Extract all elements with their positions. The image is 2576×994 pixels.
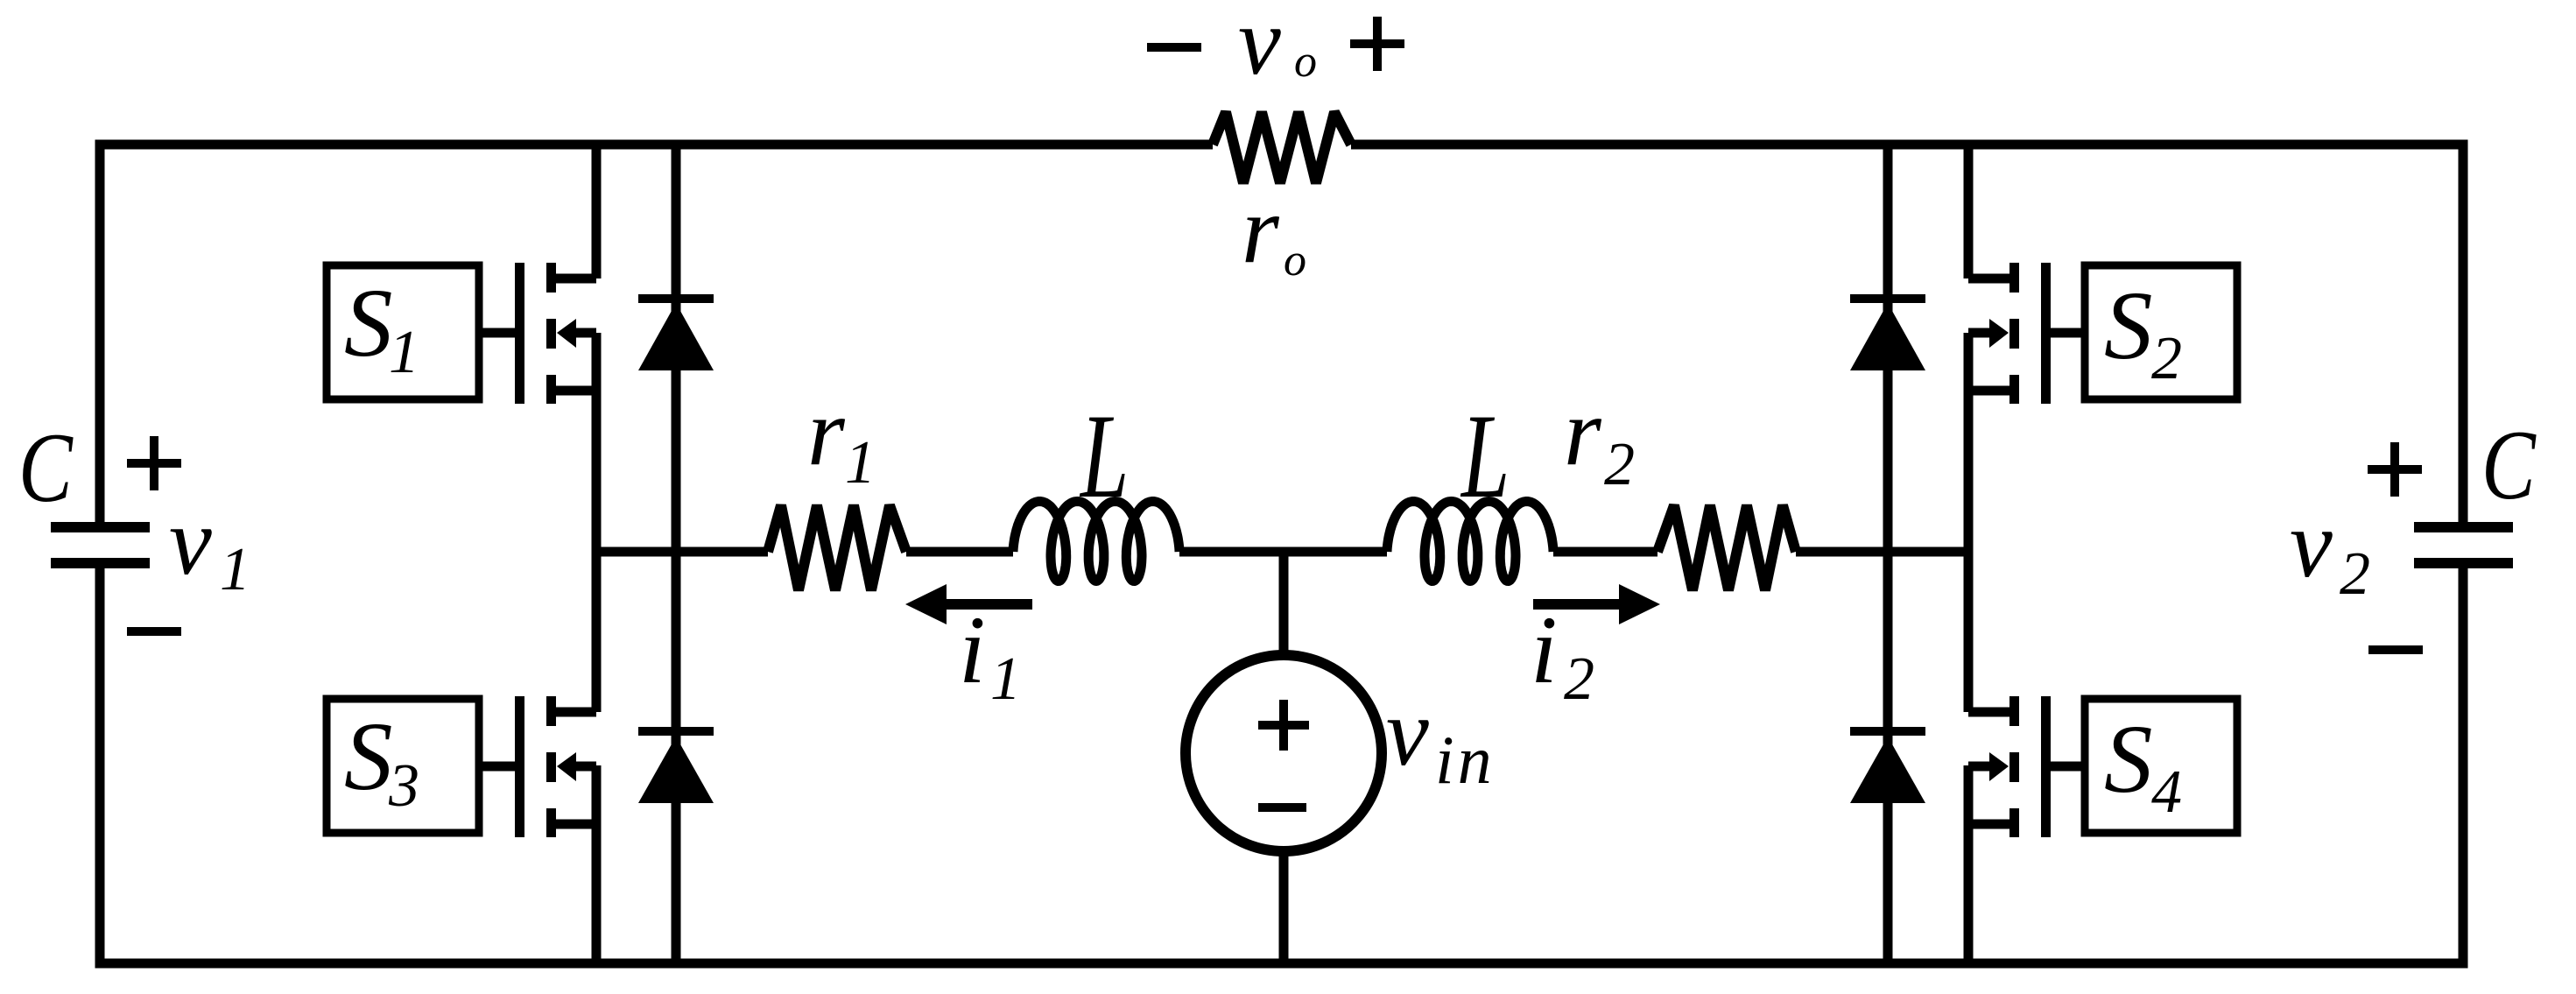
svg-text:L: L — [1079, 390, 1129, 524]
svg-text:1: 1 — [990, 645, 1021, 713]
svg-text:r: r — [1564, 378, 1602, 485]
svg-text:r: r — [807, 378, 846, 485]
svg-text:S: S — [2104, 272, 2153, 380]
svg-text:3: 3 — [388, 752, 419, 820]
svg-text:r: r — [1242, 176, 1280, 283]
svg-text:i: i — [1531, 596, 1558, 703]
svg-text:1: 1 — [220, 536, 250, 603]
svg-text:i: i — [959, 596, 986, 703]
svg-text:in: in — [1435, 722, 1496, 798]
svg-text:2: 2 — [1564, 645, 1594, 713]
svg-text:1: 1 — [389, 319, 419, 386]
svg-text:v: v — [1238, 0, 1281, 95]
svg-text:S: S — [2104, 706, 2153, 814]
svg-text:o: o — [1294, 37, 1317, 87]
svg-text:v: v — [169, 488, 212, 595]
svg-text:C: C — [2481, 411, 2537, 520]
svg-text:4: 4 — [2151, 758, 2182, 826]
svg-text:2: 2 — [2340, 540, 2370, 608]
svg-text:o: o — [1284, 236, 1306, 286]
svg-text:2: 2 — [1604, 431, 1635, 498]
svg-text:v: v — [1386, 679, 1429, 786]
svg-text:L: L — [1460, 390, 1510, 524]
svg-text:S: S — [344, 703, 393, 811]
svg-text:v: v — [2290, 490, 2333, 597]
svg-text:1: 1 — [845, 429, 876, 497]
svg-text:2: 2 — [2151, 325, 2182, 392]
svg-text:S: S — [344, 270, 393, 377]
svg-text:C: C — [18, 413, 74, 523]
